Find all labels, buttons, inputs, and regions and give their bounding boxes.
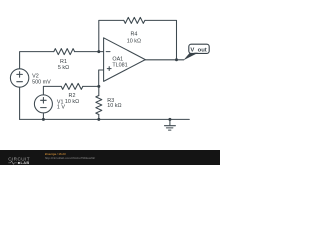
- svg-text:TL081: TL081: [112, 63, 127, 69]
- svg-text:■LAB: ■LAB: [18, 160, 30, 165]
- svg-text:500 mV: 500 mV: [32, 80, 51, 86]
- svg-text:10 kΩ: 10 kΩ: [65, 99, 79, 105]
- svg-text:http://circuitlab.com/c6mbu799: http://circuitlab.com/c6mbu7992ew6k/: [45, 156, 95, 160]
- svg-text:5 kΩ: 5 kΩ: [58, 65, 69, 71]
- svg-text:1 V: 1 V: [57, 105, 65, 111]
- svg-text:10 kΩ: 10 kΩ: [127, 38, 141, 44]
- svg-text:V_out: V_out: [190, 47, 206, 53]
- svg-text:R4: R4: [130, 32, 137, 38]
- svg-text:10 kΩ: 10 kΩ: [107, 103, 121, 109]
